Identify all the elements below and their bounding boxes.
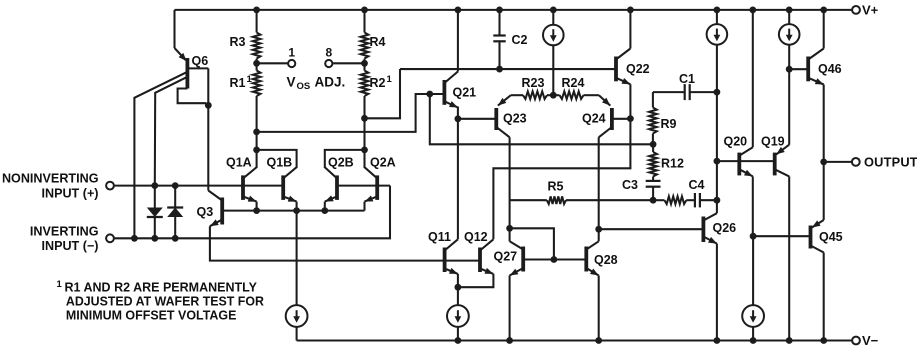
- current source I4: [707, 24, 728, 45]
- wire: Q6 collector 2 to noninverting input: [155, 77, 188, 186]
- junction dot Q1B emitter / tail source: [293, 207, 300, 214]
- junction dot V+ rail at I5: [786, 6, 793, 13]
- transistor Q21: [444, 72, 458, 108]
- current source I6: [742, 305, 764, 327]
- svg-text:V−: V−: [862, 333, 879, 348]
- junction dot V+ rail at R3: [253, 6, 260, 13]
- svg-text:Q20: Q20: [724, 134, 748, 148]
- node: Q45 base node: [750, 233, 757, 240]
- wire: Q6 collector 1 to inverting input: [134, 72, 187, 239]
- junction dot D1 cathode on inverting line: [151, 235, 158, 242]
- wire: Q2B emitter to tail bus: [324, 202, 326, 211]
- label NONINVERTING INPUT (+): [2, 172, 99, 201]
- svg-text:8: 8: [325, 45, 332, 59]
- svg-text:Q26: Q26: [713, 221, 737, 235]
- svg-text:Q2A: Q2A: [370, 155, 396, 169]
- wire: tap to pin 1: [257, 62, 288, 64]
- svg-text:OS: OS: [297, 81, 311, 92]
- capacitor C2: [493, 10, 505, 69]
- label Q19: [761, 134, 785, 148]
- wire: Q22 base line: [400, 68, 616, 70]
- svg-text:Q24: Q24: [582, 112, 606, 126]
- wire: noninverting input line: [114, 185, 243, 187]
- node: Q28 collector / Q26 base junction: [595, 226, 602, 233]
- label VOS ADJ.: [287, 74, 346, 92]
- noninverting input terminal: [106, 182, 114, 190]
- wire: R1 node down to Q1 collector bus: [256, 132, 258, 150]
- resistor R9: [649, 92, 657, 144]
- junction dot on inverting line (Q6 collector 1): [131, 235, 138, 242]
- wire: Q45 collector to V- rail: [823, 253, 825, 341]
- node: Q27 collector junction: [506, 225, 513, 232]
- label C1: [679, 72, 695, 86]
- label Q27: [494, 249, 518, 263]
- svg-text:R12: R12: [661, 157, 684, 171]
- junction dot V+ rail at Q20: [749, 6, 756, 13]
- junction dot V+ rail at Q21: [455, 6, 462, 13]
- resistor R3: [253, 10, 261, 63]
- wire: tail node to current source: [296, 211, 298, 306]
- svg-text:INPUT (−): INPUT (−): [41, 239, 98, 253]
- footnote text: [57, 279, 265, 323]
- label Q12: [464, 230, 488, 244]
- node: R2 bottom junction: [361, 115, 368, 122]
- current source I2 (Q11/Q12 tail): [447, 305, 469, 327]
- junction dot V- rail at I2: [455, 337, 462, 344]
- transistor Q1A: [243, 167, 257, 201]
- transistor Q20: [739, 147, 753, 176]
- svg-text:1: 1: [247, 74, 253, 85]
- label Q6: [192, 54, 209, 68]
- label C4: [689, 178, 705, 192]
- svg-text:R4: R4: [370, 35, 386, 49]
- diode D1 (anode up): [147, 186, 163, 239]
- wire: Q27 collector link: [509, 228, 511, 241]
- svg-text:Q23: Q23: [503, 112, 527, 126]
- wire: Q24 base line: [612, 118, 631, 120]
- svg-text:Q46: Q46: [818, 62, 842, 76]
- wire: I4 down to C1 node: [716, 45, 718, 93]
- label Q28: [594, 253, 618, 267]
- transistor Q46: [808, 49, 824, 85]
- wire: Q1B emitter to tail bus: [296, 202, 298, 211]
- junction dot V+ rail at R4: [361, 6, 368, 13]
- svg-text:Q19: Q19: [761, 134, 785, 148]
- svg-text:C4: C4: [689, 178, 705, 192]
- label Q1A: [226, 155, 252, 169]
- label R3: [230, 35, 246, 49]
- wire: Q28 collector to Q26 base: [599, 228, 704, 230]
- wire: Q27 collector-base tie: [510, 228, 554, 259]
- transistor Q27: [510, 241, 524, 275]
- transistor Q23: [496, 95, 511, 137]
- svg-text:Q27: Q27: [494, 249, 518, 263]
- wire: V+ rail down to Q6 emitter: [173, 10, 175, 48]
- junction dot D2 on noninverting line: [172, 182, 179, 189]
- inverting input terminal: [106, 234, 114, 242]
- wire: Q20-Q19 base line: [717, 160, 775, 162]
- resistor R2: [361, 63, 369, 118]
- wire: Q46 emitter to output node: [823, 85, 825, 162]
- wire: Q11 emitter drop: [457, 274, 459, 287]
- label Q20: [724, 134, 748, 148]
- junction dot V+ rail at I4: [714, 6, 721, 13]
- label Q23: [503, 112, 527, 126]
- svg-text:Q12: Q12: [464, 230, 488, 244]
- resistor R23: [511, 91, 554, 99]
- wire: Q28 collector link: [598, 229, 600, 241]
- node: C1 right junction: [714, 89, 721, 96]
- wire: I5 to Q46 base node: [788, 45, 790, 70]
- junction dot V- rail at Q19: [786, 337, 793, 344]
- wire: current source to V- rail corner: [296, 326, 298, 340]
- svg-text:C2: C2: [512, 33, 528, 47]
- transistor Q19 (PNP): [775, 145, 790, 177]
- svg-text:R5: R5: [548, 179, 564, 193]
- wire: Q2B-Q2A collector bus: [325, 150, 365, 168]
- node: Q46 base junction: [786, 66, 793, 73]
- wire: V+ to current source I3: [552, 10, 554, 25]
- resistor R12: [649, 144, 657, 181]
- transistor Q24: [599, 95, 612, 137]
- wire: Q21 collector to V+ rail: [457, 10, 459, 72]
- wire: pin 8 to R4-R2 junction: [333, 62, 365, 64]
- svg-text:1: 1: [387, 74, 393, 85]
- wire: Q45 emitter riser to output node: [823, 162, 825, 220]
- diode D2 (anode down): [167, 186, 183, 239]
- OUTPUT terminal: [852, 158, 860, 166]
- svg-text:R24: R24: [562, 76, 585, 90]
- junction dot on noninverting line (Q6 collector 2): [151, 182, 158, 189]
- wire: Q45 base node to current source I6: [752, 236, 754, 306]
- capacitor C1: [685, 84, 717, 100]
- node: OUTPUT junction: [820, 159, 827, 166]
- wire: Q6 base lower step: [178, 89, 206, 104]
- wire: base bus Q2B-Q2A to riser: [337, 185, 390, 187]
- transistor Q1B: [283, 167, 296, 201]
- wire: R2 node down to Q2 collector bus: [363, 118, 365, 150]
- label Q11: [428, 230, 451, 244]
- svg-text:INVERTING: INVERTING: [30, 224, 99, 238]
- wire: Q2A collector riser: [363, 150, 365, 168]
- transistor Q2B: [325, 167, 337, 201]
- label V-: [862, 333, 879, 348]
- wire: Q22 emitter to Q24 base node: [629, 84, 631, 118]
- svg-text:Q11: Q11: [428, 230, 451, 244]
- wire: R2 node to Q22 base line riser: [365, 69, 401, 118]
- svg-text:ADJ.: ADJ.: [315, 74, 346, 89]
- wire: V+ to current source I5: [788, 10, 790, 24]
- svg-text:OUTPUT: OUTPUT: [864, 155, 917, 170]
- wire: Q27 base bus to Q28: [523, 258, 586, 260]
- label R5: [548, 179, 564, 193]
- wire: I4 node down Q20 base: [716, 92, 718, 200]
- wire: Q6 base node down to Q3 collector: [207, 68, 209, 190]
- label Q46: [818, 62, 842, 76]
- wire: C1 left lead: [653, 91, 685, 93]
- wire: noninverting base bus Q1A-Q1B: [243, 185, 283, 187]
- node: R23-R24 center junction: [550, 92, 557, 99]
- label C2: [512, 33, 528, 47]
- label Q2A: [370, 155, 396, 169]
- capacitor C4: [686, 193, 717, 207]
- resistor R24: [553, 91, 599, 99]
- transistor Q6: [175, 48, 209, 89]
- svg-text:Q3: Q3: [197, 205, 214, 219]
- svg-text:Q2B: Q2B: [328, 155, 354, 169]
- svg-text:Q6: Q6: [192, 54, 209, 68]
- wire: Q20 emitter drop: [752, 176, 754, 236]
- wire: Q19 emitter riser to Q46 base node: [788, 69, 790, 145]
- node: Q27-Q28 base junction: [551, 256, 558, 263]
- junction dot Q1A emitter: [253, 207, 260, 214]
- pin number 8: [325, 45, 332, 59]
- wire: Q2A emitter to tail bus: [363, 202, 365, 211]
- svg-text:R1 AND R2 ARE PERMANENTLY: R1 AND R2 ARE PERMANENTLY: [65, 279, 258, 294]
- wire: Q23 collector drop to R5 tee: [509, 137, 511, 228]
- label C3: [622, 178, 638, 192]
- wire: inverting input line to riser: [114, 186, 390, 239]
- wire: V+ top supply rail: [175, 9, 856, 11]
- label OUTPUT: [864, 155, 917, 170]
- wire: Q28 emitter to V- rail: [598, 276, 600, 341]
- label R1 (with footnote 1): [230, 74, 253, 90]
- wire: Q46 collector to V+ rail: [823, 10, 825, 49]
- transistor Q11: [445, 239, 458, 274]
- wire: Q1A-Q1B collector bus: [257, 150, 297, 168]
- svg-text:1: 1: [288, 45, 295, 59]
- label R2 (with footnote 1): [370, 74, 393, 90]
- svg-text:V+: V+: [862, 3, 879, 18]
- node: R9 bottom / compensation bus junction: [650, 141, 657, 148]
- wire: Q3 emitter down and right (first stage bias bus): [210, 226, 480, 260]
- pin number 1: [288, 45, 295, 59]
- node: Q24 base / Q22 emitter junction: [627, 115, 634, 122]
- svg-text:Q28: Q28: [594, 253, 618, 267]
- wire: R5 to C3 node: [566, 199, 653, 201]
- svg-text:R1: R1: [230, 76, 246, 90]
- wire: V- bottom supply rail: [297, 339, 856, 341]
- wire: Q22 collector to V+ rail: [629, 10, 631, 49]
- svg-text:R2: R2: [370, 76, 386, 90]
- svg-text:Q22: Q22: [626, 62, 650, 76]
- wire: emitter node to current source: [457, 287, 459, 306]
- wire: Q1A emitter to tail bus: [256, 202, 258, 211]
- junction dot V+ rail at Q46: [820, 6, 827, 13]
- resistor R5: [547, 196, 566, 204]
- junction dot Q2B emitter: [321, 207, 328, 214]
- label Q45: [819, 230, 843, 244]
- wire: Q19 collector to V- rail: [788, 176, 790, 340]
- transistor Q28: [586, 241, 598, 275]
- label R24: [562, 76, 585, 90]
- node: Q11-Q12 emitter junction: [455, 284, 462, 291]
- junction dot V+ rail at I3: [550, 6, 557, 13]
- current source I5: [779, 24, 800, 45]
- label Q2B: [328, 155, 354, 169]
- label Q24: [582, 112, 606, 126]
- svg-text:C3: C3: [622, 178, 638, 192]
- wire: Q24 collector drop: [598, 137, 600, 229]
- V+ terminal: [852, 6, 860, 14]
- wire: current source to V- rail: [457, 326, 459, 340]
- label Q26: [713, 221, 737, 235]
- svg-text:NONINVERTING: NONINVERTING: [2, 172, 99, 186]
- node: Q6 base / Q3 collector junction: [205, 102, 212, 109]
- wire: Q11 collector riser to Q21 emitter node: [457, 107, 459, 240]
- svg-text:Q1B: Q1B: [267, 155, 293, 169]
- node: Q21 base junction: [426, 91, 433, 98]
- wire: output node to terminal: [824, 161, 852, 163]
- pin 8 terminal: [325, 60, 332, 67]
- current source I3 (second stage): [543, 25, 564, 46]
- node: R1 to Q21-base crossbar junction: [253, 129, 260, 136]
- label INVERTING INPUT (-): [30, 224, 99, 253]
- junction dot V- rail at I6: [750, 337, 757, 344]
- label Q22: [626, 62, 650, 76]
- capacitor C3: [646, 181, 661, 200]
- V- terminal: [852, 337, 860, 345]
- svg-text:R9: R9: [661, 117, 677, 131]
- wire: Q12 collector riser: [493, 119, 630, 240]
- label R23: [522, 76, 545, 90]
- wire: Q20 collector to V+ rail: [752, 10, 754, 147]
- node: R4-R2 junction (pin 8 tap): [361, 60, 368, 67]
- wire: emitter tail bus / Q3 base: [222, 210, 364, 212]
- svg-text:Q21: Q21: [453, 86, 477, 100]
- svg-text:R3: R3: [230, 35, 246, 49]
- svg-text:ADJUSTED AT WAFER TEST FOR: ADJUSTED AT WAFER TEST FOR: [66, 293, 265, 308]
- transistor Q22: [616, 49, 630, 85]
- junction dot C2 to Q22 base line: [496, 66, 503, 73]
- label R4: [370, 35, 386, 49]
- junction dot D2 anode on inverting line: [172, 235, 179, 242]
- junction dot V+ rail at C2: [496, 6, 503, 13]
- wire: Q1A collector riser: [256, 150, 258, 168]
- wire: Q12 emitter link to Q11 emitter: [458, 274, 494, 287]
- svg-text:MINIMUM OFFSET VOLTAGE: MINIMUM OFFSET VOLTAGE: [66, 308, 237, 323]
- label V+: [862, 3, 879, 18]
- junction dot V- rail at Q45: [820, 337, 827, 344]
- svg-text:1: 1: [57, 279, 63, 290]
- svg-text:Q1A: Q1A: [226, 155, 252, 169]
- node: C3 bottom junction: [650, 197, 657, 204]
- transistor Q12: [480, 239, 493, 274]
- wire: I6 to V- rail: [752, 326, 754, 340]
- resistor R4: [361, 10, 369, 63]
- svg-text:C1: C1: [679, 72, 695, 86]
- node: Q2 collector bus junction: [361, 147, 368, 154]
- svg-text:V: V: [287, 74, 296, 89]
- pin 1 terminal: [288, 60, 295, 67]
- node: R3-R1 junction (pin 1 tap): [253, 60, 260, 67]
- label Q21: [453, 86, 477, 100]
- wire: Q26 collector to C4 node: [716, 200, 718, 213]
- label R9: [661, 117, 677, 131]
- wire: Q45 base bus: [753, 235, 810, 237]
- label Q1B: [267, 155, 293, 169]
- svg-text:Q45: Q45: [819, 230, 843, 244]
- transistor Q45 (PNP): [811, 220, 824, 253]
- label R12: [661, 157, 684, 171]
- junction dot V- rail at Q28: [595, 337, 602, 344]
- wire: R5 tee from Q23 collector line: [510, 199, 547, 201]
- resistor (series with C4): [653, 196, 686, 204]
- transistor Q3: [208, 191, 222, 227]
- wire: crossbar R1 node to Q21 base: [257, 94, 445, 132]
- label Q3: [197, 205, 214, 219]
- wire: I3 to R23/R24 center node: [552, 45, 554, 95]
- node: Q21 emitter / Q23 base junction: [455, 115, 462, 122]
- wire: Q26 emitter to V- rail: [716, 244, 718, 341]
- transistor Q2A: [365, 167, 378, 201]
- node: C4 / Q26 collector junction: [714, 197, 721, 204]
- wire: Q21 base down to compensation bus: [430, 94, 653, 144]
- node: Q20 base junction: [714, 158, 721, 165]
- junction dot V- rail at Q26: [714, 337, 721, 344]
- svg-text:INPUT (+): INPUT (+): [41, 186, 98, 200]
- wire: V+ to current source I4: [716, 10, 718, 24]
- node: Q1 collector bus junction: [253, 147, 260, 154]
- junction dot V+ rail at Q22: [627, 6, 634, 13]
- transistor Q26: [703, 213, 717, 243]
- current source I1 (input pair tail): [286, 305, 308, 327]
- resistor R1: [253, 63, 261, 132]
- junction dot V- rail at Q27: [506, 337, 513, 344]
- svg-text:R23: R23: [522, 76, 545, 90]
- wire: Q27 emitter to V- rail: [509, 276, 511, 341]
- wire: Q23 base line: [458, 118, 496, 120]
- wire: Q46 base line: [789, 68, 808, 70]
